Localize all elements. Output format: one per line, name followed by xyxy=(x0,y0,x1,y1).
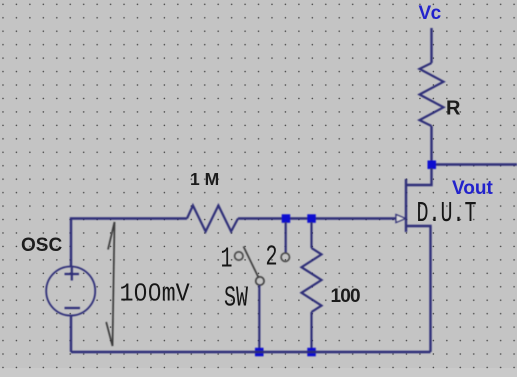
resistor R2 100 xyxy=(302,248,322,312)
svg-text:D.U.T: D.U.T xyxy=(417,199,477,230)
switch SW terminal 2 circle xyxy=(281,253,289,261)
resistor R xyxy=(420,63,444,126)
source OSC plus sign xyxy=(65,268,80,281)
node junction above resistor 100 xyxy=(307,214,316,223)
svg-text:Vc: Vc xyxy=(419,3,442,24)
source OSC circle xyxy=(46,267,95,316)
wire main gate line from 1M resistor to gate xyxy=(238,217,396,219)
wire junction to resistor 100 xyxy=(310,222,312,248)
switch SW terminal 1 circle xyxy=(235,252,243,260)
zero glyph dot covers xyxy=(139,289,143,295)
svg-text:100mV: 100mV xyxy=(120,281,190,309)
wire Vout rail xyxy=(436,163,517,165)
wire resistor R to drain node xyxy=(430,126,432,164)
svg-text:100: 100 xyxy=(331,286,361,307)
svg-text:R: R xyxy=(446,98,461,120)
transistor gate arrow xyxy=(396,215,406,223)
svg-text:Vout: Vout xyxy=(452,178,493,199)
wire drain connection xyxy=(406,168,432,185)
svg-text:1 M: 1 M xyxy=(190,169,219,189)
node junction above switch terminal 2 xyxy=(282,214,291,223)
annotation arrow for 100mV xyxy=(106,222,114,346)
wire Vc to resistor R xyxy=(430,28,432,63)
wire OSC bottom lead xyxy=(70,316,72,353)
wire source connection xyxy=(406,226,431,352)
resistor R1 1M xyxy=(187,206,238,232)
svg-text:2: 2 xyxy=(266,243,278,274)
wire bottom rail xyxy=(71,351,431,353)
node Vout junction xyxy=(428,161,437,170)
svg-text:SW: SW xyxy=(224,284,248,315)
node junction bottom rail below switch xyxy=(255,348,264,357)
switch pole circle xyxy=(256,277,264,285)
switch blade xyxy=(244,247,259,278)
source OSC minus sign xyxy=(65,307,81,309)
wire switch pole to bottom rail xyxy=(258,285,260,352)
svg-text:1: 1 xyxy=(221,245,233,276)
wire junction to switch terminal 2 xyxy=(285,222,287,253)
wire resistor 100 to bottom rail xyxy=(310,312,312,352)
wire from OSC top corner to 1M resistor xyxy=(71,219,187,268)
svg-text:OSC: OSC xyxy=(21,235,62,256)
transistor Q1 D.U.T (JFET symbol) xyxy=(396,168,432,352)
node junction bottom rail below resistor 100 xyxy=(307,348,316,357)
transistor channel bar xyxy=(405,179,407,232)
